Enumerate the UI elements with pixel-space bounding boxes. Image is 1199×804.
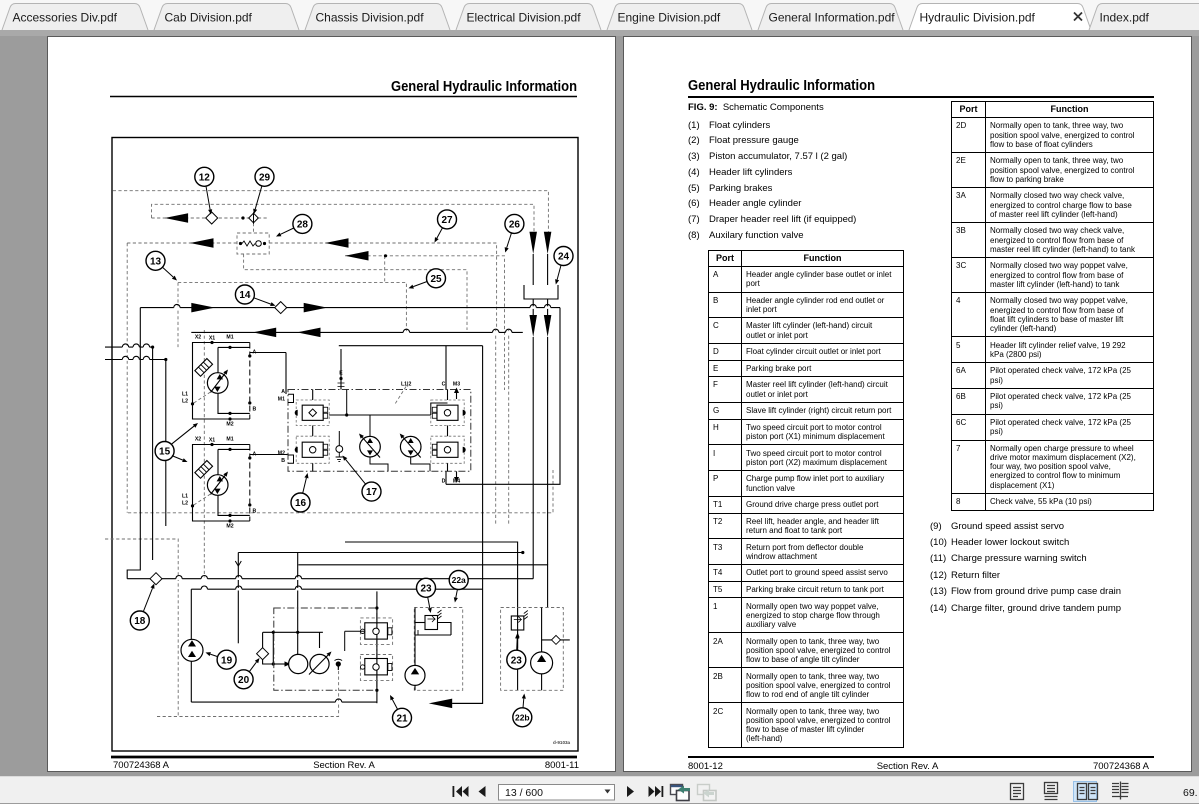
pump unit outer box 1 — [193, 343, 250, 420]
pump 22a — [405, 665, 425, 685]
flow arrow A8 — [297, 328, 321, 338]
22b side check — [552, 635, 561, 644]
relief valve RV23a — [425, 610, 442, 630]
wire dashed node13 drop — [177, 283, 179, 348]
pump P2 (variable displacement) — [207, 472, 228, 496]
wire 22a bottom — [414, 685, 416, 690]
svg-text:16: 16 — [295, 498, 307, 509]
svg-text:13 / 600: 13 / 600 — [505, 787, 543, 799]
pump A port wire 2 — [250, 454, 286, 456]
svg-text:12: 12 — [199, 172, 211, 183]
check valve CV14 — [275, 302, 287, 314]
wire rail supply — [140, 307, 560, 309]
svg-text:69.: 69. — [1183, 787, 1198, 799]
tandem charge pump — [289, 654, 308, 673]
wire low rail 3 — [345, 542, 518, 690]
svg-text:20: 20 — [238, 675, 250, 686]
orifice assembly 28 — [237, 233, 269, 254]
pump 2 case drain dashes — [191, 494, 211, 508]
figure id text — [553, 740, 571, 745]
page heading — [391, 79, 577, 95]
svg-text:M3: M3 — [453, 382, 460, 388]
balloon 19 — [206, 650, 237, 669]
wire 23b arrow line — [516, 633, 520, 649]
motor M1 (two-speed wheel motor) — [359, 434, 380, 458]
wire aux valves link — [345, 631, 365, 651]
wire dashed left low — [105, 539, 178, 717]
svg-text:24: 24 — [558, 252, 570, 263]
wire 22a valve circuit — [415, 608, 451, 666]
svg-text:18: 18 — [134, 616, 146, 627]
svg-text:A: A — [281, 389, 285, 395]
wire pump2 feed — [165, 360, 167, 527]
flow arrow A3 — [325, 238, 349, 248]
flow arrow A6 — [304, 303, 328, 313]
servo piston 1 — [195, 359, 213, 377]
wire left feed B — [105, 358, 167, 361]
flow arrow down pair 2 — [529, 315, 551, 337]
block labels bottom — [442, 479, 461, 485]
svg-text:D: D — [442, 479, 446, 485]
svg-text:22a: 22a — [452, 575, 466, 585]
svg-text:X2: X2 — [195, 437, 201, 443]
wire tank column A — [532, 337, 534, 579]
balloon 22b — [513, 694, 532, 727]
check valve CV18 — [150, 573, 162, 585]
pump unit outer box 2 — [193, 445, 250, 522]
flow arrow A2 — [190, 238, 214, 248]
L12 dashed diag — [395, 387, 406, 405]
block inner rail — [329, 390, 431, 417]
svg-text:C: C — [442, 382, 446, 388]
tank stubs — [533, 254, 547, 285]
aux valve sub-box 2 — [360, 655, 392, 681]
balloon 21 — [390, 695, 412, 727]
svg-text:General Information.pdf: General Information.pdf — [769, 11, 896, 25]
svg-text:27: 27 — [441, 215, 453, 226]
pump A2 wire — [286, 454, 288, 456]
svg-text:13: 13 — [150, 256, 162, 267]
wire port C drop — [445, 346, 447, 390]
solenoid valve SV1 — [295, 400, 330, 426]
wire jump-overs — [122, 304, 551, 702]
balloon 27 — [435, 210, 457, 243]
footer text left — [113, 760, 170, 771]
motor bottom links — [370, 457, 430, 471]
motor feed right — [431, 403, 448, 415]
wire low rail 2 — [191, 588, 482, 590]
22b dashed box — [501, 608, 564, 691]
motor feed left — [369, 415, 371, 436]
wire dashed mid rail — [244, 254, 467, 330]
svg-text:Engine Division.pdf: Engine Division.pdf — [618, 11, 721, 25]
wire dashed node25 rail — [178, 283, 406, 333]
wire dashed pilot second — [152, 204, 535, 231]
port bracket A/M1 — [288, 394, 294, 402]
footer text center — [313, 760, 375, 771]
balloon 20 — [234, 658, 259, 689]
svg-text:B: B — [253, 407, 257, 413]
wire low rail 1 — [127, 578, 533, 580]
wire charge col — [190, 589, 192, 702]
figure frame — [112, 138, 578, 752]
wire pump1 feed — [152, 347, 154, 560]
pump 1 case drain dashes — [191, 392, 211, 406]
check valve CV29 — [249, 212, 259, 224]
pump unit inner box 2 — [218, 449, 250, 515]
wire dashed left pilot down — [126, 243, 128, 513]
port E line — [338, 349, 345, 390]
svg-text:Chassis Division.pdf: Chassis Division.pdf — [316, 11, 425, 25]
balloon 15 — [155, 423, 198, 462]
wire dashed valve29 drop — [253, 223, 255, 233]
pump A1 drop — [285, 353, 287, 395]
pump port dots 2 — [210, 443, 251, 523]
tank T (24) — [524, 285, 558, 299]
port M3 stub — [454, 388, 459, 400]
pump labels 1 — [182, 335, 257, 428]
svg-text:d-9103a: d-9103a — [553, 740, 571, 745]
wire dashed to orifice 28 — [127, 242, 237, 244]
svg-text:L1: L1 — [182, 494, 188, 500]
wire aux feed — [263, 631, 323, 634]
wire port D drop — [446, 471, 483, 484]
heading rule — [110, 96, 577, 98]
wire 22b circuit — [542, 608, 570, 691]
wire low rail 4 — [238, 551, 524, 554]
svg-text:M2: M2 — [278, 451, 285, 457]
wire pump top link — [319, 632, 321, 648]
svg-text:Hydraulic Division.pdf: Hydraulic Division.pdf — [920, 11, 1036, 25]
balloon 24 — [554, 247, 573, 285]
relief valve RV23b — [511, 611, 528, 631]
wire dashed drop x157 — [203, 330, 205, 581]
balloon 17 — [343, 456, 382, 502]
flow arrow A4 — [345, 251, 369, 260]
balloon 26 — [505, 214, 524, 252]
ground drive pump — [309, 652, 332, 675]
svg-text:29: 29 — [259, 172, 271, 183]
wire dashed drop x337 — [384, 256, 386, 283]
shuttle symbol — [335, 659, 343, 670]
22a dashed box — [414, 608, 462, 691]
balloon 22a — [449, 571, 468, 603]
wire bottom rail — [191, 701, 377, 703]
wire pump col — [297, 553, 299, 655]
wire aux drop — [272, 632, 289, 665]
svg-text:23: 23 — [420, 583, 432, 594]
pump group frame — [274, 608, 377, 690]
node dot rail — [384, 254, 387, 257]
wire right return — [483, 308, 560, 485]
balloon 25 — [409, 269, 446, 289]
svg-text:23: 23 — [511, 655, 523, 666]
pump unit inner box 1 — [218, 347, 250, 413]
tank outlet lines — [533, 299, 547, 315]
wire left main down — [127, 308, 140, 579]
svg-text:M2: M2 — [226, 422, 233, 428]
port M4 stub — [454, 471, 459, 482]
balloon 28 — [276, 214, 312, 236]
svg-text:19: 19 — [221, 655, 233, 666]
wire dashed gauge line — [152, 217, 268, 219]
motor M2 (two-speed wheel motor) — [400, 434, 421, 458]
port bracket M2/B — [288, 455, 294, 463]
block labels top — [339, 371, 460, 388]
wire dashed bottom low — [157, 664, 339, 717]
pump P1 (variable displacement) — [207, 370, 228, 394]
footer text right — [545, 760, 579, 771]
filter F19 — [181, 639, 203, 661]
wire filter drop — [235, 553, 241, 644]
drain symbol (17 target) — [336, 431, 343, 462]
svg-text:26: 26 — [509, 220, 521, 231]
flow arrow A9 — [429, 699, 453, 709]
wire tank column B — [547, 337, 549, 565]
svg-text:M1: M1 — [278, 397, 285, 403]
balloon 23 — [507, 634, 526, 670]
solenoid valve SV4 — [431, 436, 466, 463]
wire rail 3 — [339, 345, 483, 347]
svg-text:X1: X1 — [209, 336, 215, 342]
svg-text:L2: L2 — [182, 399, 188, 405]
pump port dots 1 — [210, 341, 251, 421]
svg-text:B: B — [281, 458, 285, 464]
wire low rail 5 — [298, 565, 547, 608]
flow arrow A5 — [191, 303, 215, 313]
aux valve sub-box 1 — [360, 618, 392, 645]
svg-text:700724368 A: 700724368 A — [113, 760, 170, 771]
svg-text:Index.pdf: Index.pdf — [1100, 11, 1150, 25]
solenoid valve SV3 — [431, 400, 466, 426]
check valve CV20 — [257, 632, 269, 659]
wire dashed charge rail — [345, 256, 505, 390]
block labels left — [278, 389, 285, 464]
svg-text:X1: X1 — [209, 438, 215, 444]
svg-text:Electrical Division.pdf: Electrical Division.pdf — [467, 11, 582, 25]
balloon 29 — [253, 167, 274, 214]
balloon 12 — [195, 167, 214, 214]
control block frame — [288, 390, 471, 472]
wire dashed orifice to right — [269, 243, 496, 330]
svg-text:L2: L2 — [182, 501, 188, 507]
wire 21 out — [452, 702, 482, 704]
svg-text:L1: L1 — [182, 392, 188, 398]
pump A port wire 1 — [250, 352, 286, 354]
wire dashed pilot top — [113, 191, 549, 232]
servo piston 2 — [195, 461, 213, 479]
wire rail 2 — [191, 331, 523, 333]
balloon 18 — [130, 584, 154, 631]
svg-text:M1: M1 — [226, 437, 233, 443]
flow arrow A1 — [165, 213, 189, 223]
svg-text:21: 21 — [396, 713, 408, 724]
svg-text:X2: X2 — [195, 335, 201, 341]
gauge G1 (12) — [206, 212, 218, 224]
solenoid valve SV2 — [295, 436, 330, 463]
svg-text:14: 14 — [239, 290, 251, 301]
wire pump group right — [375, 591, 378, 703]
svg-text:Section Rev. A: Section Rev. A — [313, 760, 375, 771]
svg-text:General Hydraulic Information: General Hydraulic Information — [391, 79, 577, 95]
node dot left of CV29 — [241, 216, 244, 219]
svg-text:Cab Division.pdf: Cab Division.pdf — [165, 11, 253, 25]
svg-text:L1|2: L1|2 — [401, 382, 412, 388]
svg-text:22b: 22b — [515, 712, 530, 722]
balloon 16 — [291, 473, 310, 512]
svg-text:M1: M1 — [226, 335, 233, 341]
svg-text:8001-11: 8001-11 — [545, 760, 579, 771]
svg-text:B: B — [253, 509, 257, 515]
wire right frame — [452, 346, 482, 704]
svg-text:15: 15 — [159, 447, 171, 458]
flow arrow down pair 1 — [529, 232, 551, 254]
wire dashed bottom rect — [128, 470, 553, 513]
svg-text:28: 28 — [297, 220, 309, 231]
wire left feed A — [105, 346, 154, 349]
balloon 13 — [146, 251, 177, 280]
flow arrow A7 — [253, 328, 277, 338]
svg-text:17: 17 — [366, 487, 378, 498]
wire cv20 out — [263, 659, 291, 666]
pump 22b — [531, 652, 553, 674]
balloon 23 — [417, 578, 436, 613]
svg-text:M2: M2 — [226, 524, 233, 530]
valve connect lines — [313, 390, 448, 472]
pump labels 2 — [182, 437, 257, 530]
footer rule — [111, 756, 577, 759]
balloon 14 — [235, 285, 275, 306]
svg-text:Accessories Div.pdf: Accessories Div.pdf — [13, 11, 118, 25]
svg-text:25: 25 — [430, 274, 442, 285]
wire dashed center drops — [496, 330, 509, 525]
